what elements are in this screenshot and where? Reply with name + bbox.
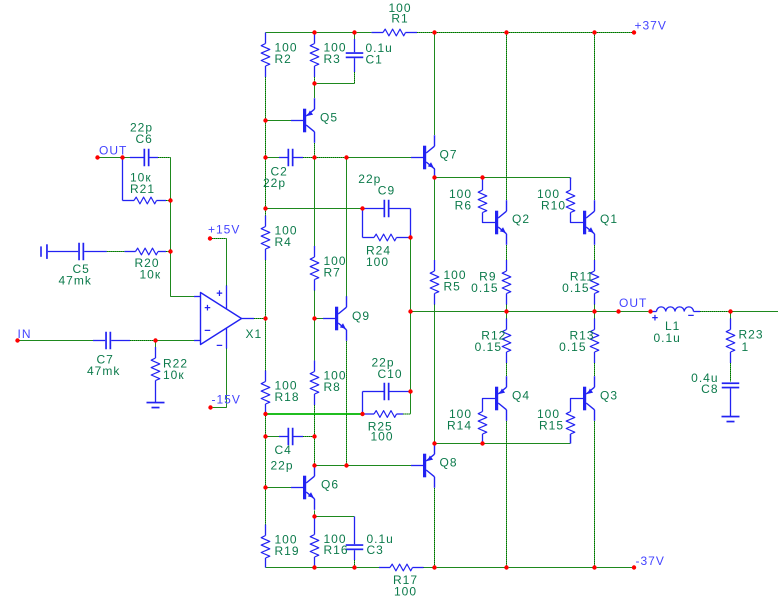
svg-text:R1: R1 [391, 12, 408, 26]
svg-text:R15: R15 [539, 419, 564, 433]
svg-text:Q5: Q5 [320, 111, 338, 125]
svg-text:R6: R6 [455, 199, 472, 213]
svg-text:100: 100 [366, 255, 389, 269]
svg-text:+: + [204, 303, 210, 315]
svg-text:0.1u: 0.1u [654, 331, 681, 345]
svg-text:R16: R16 [324, 543, 349, 557]
svg-text:IN: IN [18, 327, 32, 341]
svg-text:0.15: 0.15 [471, 281, 498, 295]
svg-text:47mk: 47mk [87, 364, 120, 378]
svg-text:R19: R19 [275, 544, 300, 558]
svg-text:R7: R7 [324, 266, 341, 280]
svg-text:−: − [216, 340, 222, 352]
svg-text:Q7: Q7 [440, 148, 458, 162]
svg-text:C9: C9 [378, 184, 395, 198]
svg-text:R8: R8 [324, 380, 341, 394]
svg-text:0.15: 0.15 [475, 340, 502, 354]
svg-text:−: − [204, 325, 210, 337]
svg-text:+15V: +15V [208, 223, 240, 237]
svg-text:10к: 10к [163, 368, 185, 382]
svg-text:C6: C6 [136, 132, 153, 146]
svg-text:C3: C3 [367, 543, 384, 557]
svg-text:10к: 10к [140, 268, 162, 282]
svg-text:R3: R3 [324, 52, 341, 66]
svg-text:+: + [216, 288, 222, 300]
svg-text:+37V: +37V [635, 19, 667, 33]
svg-text:Q8: Q8 [440, 456, 458, 470]
svg-text:C10: C10 [378, 367, 403, 381]
svg-text:R18: R18 [275, 390, 300, 404]
svg-text:1: 1 [742, 340, 750, 354]
svg-text:Q2: Q2 [512, 212, 530, 226]
svg-text:R4: R4 [275, 235, 292, 249]
svg-text:C8: C8 [701, 382, 718, 396]
svg-text:22p: 22p [271, 459, 294, 473]
svg-text:0.15: 0.15 [562, 281, 589, 295]
svg-text:47mk: 47mk [59, 274, 92, 288]
svg-text:R10: R10 [541, 199, 566, 213]
svg-text:Q9: Q9 [352, 309, 370, 323]
svg-text:-15V: -15V [212, 393, 241, 407]
svg-text:-37V: -37V [636, 554, 665, 568]
svg-text:X1: X1 [246, 327, 263, 341]
svg-text:Q4: Q4 [512, 389, 530, 403]
svg-text:−: − [688, 310, 694, 322]
svg-text:100: 100 [394, 585, 417, 599]
svg-text:R2: R2 [275, 52, 292, 66]
svg-text:22p: 22p [263, 176, 286, 190]
svg-text:+: + [652, 313, 658, 325]
svg-text:Q1: Q1 [600, 212, 618, 226]
svg-text:R14: R14 [447, 419, 472, 433]
svg-text:C1: C1 [366, 53, 383, 67]
svg-text:OUT: OUT [619, 296, 647, 310]
svg-text:C4: C4 [275, 443, 292, 457]
svg-text:100: 100 [371, 430, 394, 444]
svg-text:R5: R5 [444, 280, 461, 294]
svg-text:R21: R21 [130, 182, 155, 196]
svg-text:OUT: OUT [99, 144, 127, 158]
svg-text:Q3: Q3 [600, 389, 618, 403]
svg-text:Q6: Q6 [321, 478, 339, 492]
svg-text:0.15: 0.15 [559, 340, 586, 354]
